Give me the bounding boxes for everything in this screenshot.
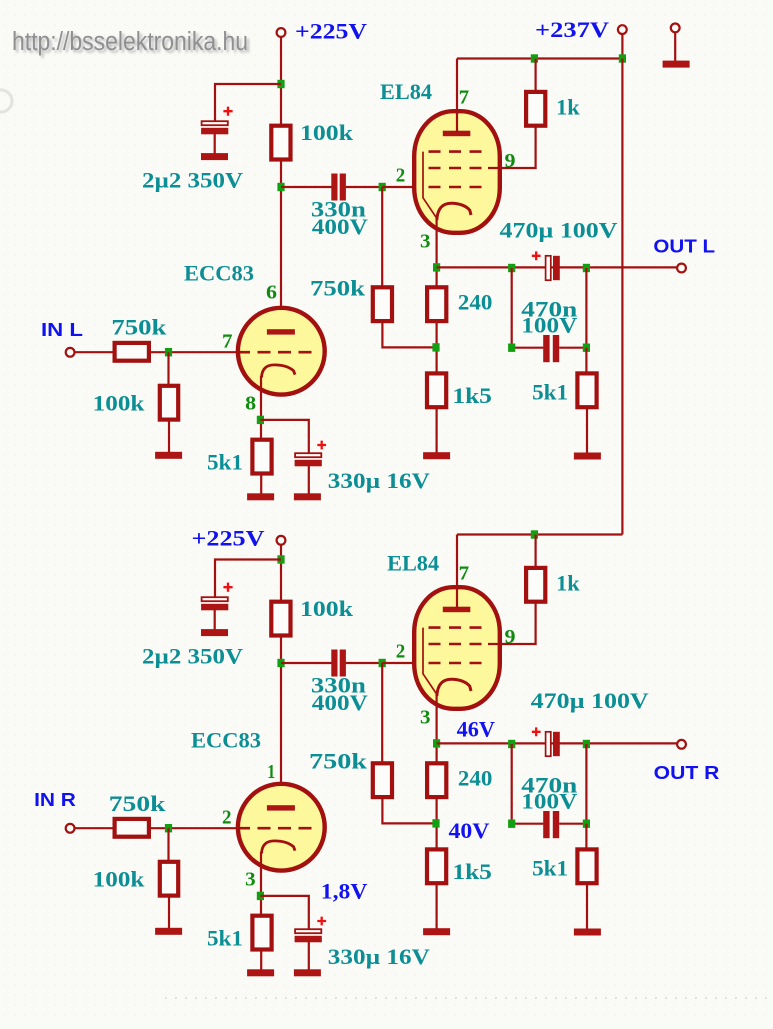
faint dotted border bottom [165,997,770,999]
svg-text:IN L: IN L [41,319,83,340]
resistor 750k input (R ch) [115,819,149,837]
wire EL84 plate lead [456,535,458,609]
EL84 grid g2 dashed row (L ch) [429,167,491,170]
junction 470µ right [583,264,590,272]
EL84 grid g1 dashed row (L ch) [429,186,491,189]
wire input terminal to 750k [75,827,113,829]
resistor 100k grid leak (R ch) [160,862,178,896]
wire 750k bottom to cathode-divider node [382,321,436,348]
terminal IN R [66,824,75,833]
svg-text:2: 2 [396,165,406,187]
terminal +225V (right ch) [277,536,286,545]
wire grid node to 750k [381,187,383,287]
polarity + of 330µ (R ch) [317,917,326,926]
svg-text:EL84: EL84 [380,79,432,104]
svg-text:240: 240 [458,765,493,790]
junction EL84 cathode node [433,739,440,747]
junction 470µ left [508,264,515,272]
capacitor 330µ 16V cathode bypass (L ch) [295,453,322,466]
capacitor 470n 100V (L ch) [543,335,559,362]
svg-text:100V: 100V [521,789,577,814]
svg-text:2µ2 350V: 2µ2 350V [142,167,243,192]
polarity + of 470µ (L ch) [532,251,541,260]
tube EL84 envelope (R ch) [414,587,500,709]
wire 100k bottom to ECC83 plate [280,160,282,330]
wire 1k bottom to EL84 pin 9 [488,602,536,645]
svg-text:ECC83: ECC83 [191,727,261,752]
svg-text:7: 7 [459,562,470,584]
wire 1k bottom to EL84 pin 9 [488,126,536,169]
ground below output 5k1 (R ch) [574,929,601,936]
capacitor 330n 400V coupling (L ch) [331,174,346,201]
svg-text:ECC83: ECC83 [184,260,254,285]
svg-text:1k: 1k [556,571,580,596]
wire 470n right drop [585,268,587,348]
junction ECC83 cathode node [257,416,264,424]
junction anode node [277,659,284,667]
wire 5k1 cathode to ground [260,473,262,495]
capacitor 330µ 16V cathode bypass (R ch) [295,929,322,942]
wire 1k top lead [534,535,536,568]
svg-text:OUT R: OUT R [654,762,720,783]
ground below grid leak (R ch) [155,928,182,935]
junction +225V node [277,555,284,563]
terminal chassis ground [671,24,680,33]
wire +225V terminal to 100k RR1 top [280,545,282,602]
svg-text:5k1: 5k1 [207,925,243,950]
EL84 g3-to-cathode internal link (R ch) [423,628,437,694]
svg-text:3: 3 [420,706,431,728]
ground below grid leak (L ch) [155,452,182,459]
resistor 750k input (L ch) [115,343,149,361]
wire ECC83 cathode lead [260,376,262,440]
resistor 5k1 cathode (L ch) [252,440,271,474]
ground below 330µ (L ch) [294,493,321,500]
junction input grid node [165,824,172,832]
ground below 330µ (R ch) [294,969,321,976]
svg-text:100k: 100k [300,120,354,145]
wire 470n left link [512,347,544,349]
resistor 5k1 output (R ch) [577,849,596,883]
wire 330µ to ground [308,466,310,494]
resistor 1k screen EL84 (L ch) [526,92,545,126]
wire 470n left link [512,823,544,825]
junction +237V node [619,54,626,62]
svg-text:2: 2 [222,806,232,828]
capacitor 330n 400V coupling (R ch) [331,650,346,677]
wire 750k to ECC83 grid [151,351,238,353]
junction 470µ left [508,740,515,748]
EL84 g3-to-cathode internal link (L ch) [423,152,437,218]
capacitor 2µ2 350V filter (R ch) [201,597,228,610]
junction 470µ right [583,740,590,748]
ground below 2µ2 cap (R ch) [201,629,228,636]
wire grid node to 100k [167,352,169,385]
ground below 2µ2 cap (L ch) [201,153,228,160]
wire 330n to EL84 grid node [346,662,383,664]
ECC83 plate bar (L ch) [267,329,295,334]
tube ECC83 envelope (R ch) [238,784,325,871]
terminal IN L [66,348,75,357]
svg-text:470µ 100V: 470µ 100V [531,688,649,713]
wire 330n to EL84 grid node [346,186,383,188]
junction divider node [432,343,439,351]
wire anode node to 330n [281,662,332,664]
wire 1k5 to ground [436,884,438,929]
polarity + of 2µ2 cap (L ch) [223,107,232,116]
svg-text:3: 3 [420,230,431,252]
resistor 1k5 (R ch) [427,849,446,883]
capacitor 470µ 100V output (R ch) [546,732,560,756]
svg-text:330µ 16V: 330µ 16V [328,468,430,493]
svg-text:2µ2 350V: 2µ2 350V [142,643,243,668]
wire 1k top lead [534,59,536,92]
svg-text:750k: 750k [109,791,167,816]
svg-text:+225V: +225V [192,526,265,551]
terminal +237V [618,25,627,34]
ECC83 grid dashed row (L ch) [237,351,317,354]
svg-text:EL84: EL84 [387,551,439,576]
svg-text:+237V: +237V [535,17,609,42]
svg-text:1k5: 1k5 [452,383,492,408]
resistor 240 cathode EL84 (L ch) [427,287,446,321]
junction input grid node [165,348,172,356]
wire EL84 cathode lead [436,694,438,763]
capacitor 470µ 100V output (L ch) [546,256,560,280]
wire 100k grid leak to ground [168,897,170,929]
junction +225V node [277,80,284,88]
ground below 1k5 (L ch) [423,452,450,459]
svg-text:100k: 100k [93,867,146,892]
svg-text:1,8V: 1,8V [321,878,368,903]
wire +225V node to filter cap [215,84,281,121]
resistor 5k1 output (L ch) [577,373,596,407]
resistor 240 cathode EL84 (R ch) [427,763,446,797]
wire cathode node to 330µ [260,420,308,454]
wire 5k1 top lead [585,348,587,373]
svg-text:5k1: 5k1 [207,449,243,474]
ECC83 plate bar (R ch) [267,805,295,810]
svg-text:6: 6 [266,281,277,303]
svg-text:5k1: 5k1 [532,380,568,405]
ground chassis [663,61,690,68]
EL84 cathode arc (R ch) [437,679,471,696]
tube EL84 envelope (L ch) [414,111,500,233]
wire 1k5 to ground [436,408,438,453]
wire 5k1 to ground [586,884,588,930]
svg-text:330µ 16V: 330µ 16V [328,944,430,969]
wire plate top bus [457,533,622,535]
wire grid node to 100k [167,828,169,861]
wire 750k bottom to cathode-divider node [382,797,436,824]
wire 5k1 cathode to ground [260,949,262,971]
svg-text:750k: 750k [310,275,366,300]
ECC83 cathode arc (L ch) [262,365,296,378]
svg-text:5k1: 5k1 [532,856,568,881]
svg-text:7: 7 [459,86,470,108]
EL84 grid g3 dashed row (R ch) [429,626,491,629]
wire 470n left drop [511,744,513,824]
svg-text:100V: 100V [521,313,577,338]
resistor 1k5 (L ch) [427,373,446,407]
junction ECC83 cathode node [257,892,264,900]
svg-text:470µ 100V: 470µ 100V [500,217,618,242]
svg-text:40V: 40V [449,818,490,843]
resistor 1k screen EL84 (R ch) [526,568,545,602]
watermark arc artifact [0,90,12,112]
polarity + of 470µ (R ch) [532,727,541,736]
wire anode node to 330n [281,186,332,188]
svg-text:http://bsselektronika.hu: http://bsselektronika.hu [12,28,248,56]
wire grid node into EL84 pin 2 [382,662,432,664]
junction EL84 grid node [379,183,386,191]
polarity + of 2µ2 cap (R ch) [223,583,232,592]
wire +225V terminal to 100k RL1 top [280,37,282,126]
wire EL84 plate lead [456,59,458,133]
svg-text:750k: 750k [111,315,167,340]
tube ECC83 envelope (L ch) [238,308,325,395]
svg-text:750k: 750k [309,749,368,774]
wire 330µ to ground [308,942,310,970]
EL84 cathode arc (L ch) [437,203,471,220]
wire 2µ2 cap to ground [214,134,216,155]
wire 100k grid leak to ground [168,421,170,453]
wire EL84 cathode lead [436,218,438,287]
resistor 100k anode ECC83 (L ch) [271,126,290,160]
junction 1k top [531,54,538,62]
EL84 grid g3 dashed row (L ch) [429,150,491,153]
wire 470n right drop [585,744,587,824]
wire 240 bottom to divider node [436,797,438,850]
svg-text:2: 2 [396,641,406,663]
resistor 5k1 cathode (R ch) [252,916,271,950]
terminal OUT L [677,264,686,273]
junction 470n left [508,344,515,352]
svg-text:OUT L: OUT L [653,235,715,256]
junction divider node [432,819,439,827]
resistor 750k grid EL84 (L ch) [373,287,392,321]
terminal OUT R [677,740,686,749]
junction EL84 cathode node [433,263,440,271]
EL84 grid g2 dashed row (R ch) [429,643,491,646]
wire 2µ2 cap to ground [214,610,216,631]
EL84 plate bar (R ch) [443,607,471,613]
wire +225V node to filter cap [215,560,281,598]
ground below cathode 5k1 (L ch) [247,493,274,500]
svg-text:46V: 46V [457,716,495,741]
wire 750k to ECC83 grid [151,827,238,829]
wire +237V rail down to right channel [621,59,623,535]
wire 240 bottom to divider node [436,321,438,374]
wire chassis terminal to ground [674,32,676,61]
svg-text:1k: 1k [556,95,580,120]
junction 470n right [583,344,590,352]
ground below 1k5 (R ch) [423,928,450,935]
ECC83 grid dashed row (R ch) [237,827,317,830]
ground below output 5k1 (L ch) [574,453,601,460]
resistor 100k anode ECC83 (R ch) [271,602,290,636]
wire 470n left drop [511,268,513,348]
svg-text:400V: 400V [312,690,368,715]
svg-text:100k: 100k [93,391,146,416]
wire 470n right link [559,823,586,825]
junction anode node [277,183,284,191]
svg-text:1: 1 [267,761,275,783]
wire grid node to 750k [381,663,383,763]
wire input terminal to 750k [75,351,113,353]
wire cathode node to 330µ [260,896,308,930]
junction 470n right [583,820,590,828]
capacitor 2µ2 350V filter (L ch) [201,121,228,134]
wire plate top bus [457,57,622,59]
junction 1k top [531,530,538,538]
ground below cathode 5k1 (R ch) [247,969,274,976]
svg-text:IN R: IN R [34,789,76,810]
svg-text:7: 7 [222,330,233,352]
capacitor 470n 100V (R ch) [543,811,559,838]
svg-text:400V: 400V [312,214,368,239]
resistor 100k grid leak (L ch) [160,386,178,420]
svg-text:1k5: 1k5 [452,859,492,884]
wire +237V terminal lead [621,34,623,59]
wire grid node into EL84 pin 2 [382,186,432,188]
wire 5k1 to ground [586,408,588,454]
wire ECC83 cathode lead [260,852,262,916]
terminal +225V (left ch) [277,28,286,37]
svg-text:8: 8 [245,392,256,414]
polarity + of 330µ (L ch) [317,441,326,450]
svg-text:240: 240 [458,289,493,314]
wire 100k bottom to ECC83 plate [280,636,282,806]
EL84 plate bar (L ch) [443,131,471,137]
resistor 750k grid EL84 (R ch) [373,763,392,797]
wire output node OUT L [437,266,678,268]
junction 470n left [508,820,515,828]
wire 5k1 top lead [585,824,587,849]
junction EL84 grid node [379,659,386,667]
ECC83 cathode arc (R ch) [262,841,296,854]
svg-text:3: 3 [245,868,256,890]
wire output node OUT R [437,742,678,744]
svg-text:100k: 100k [300,596,354,621]
EL84 grid g1 dashed row (R ch) [429,662,491,665]
wire 470n right link [559,347,586,349]
svg-text:+225V: +225V [295,18,367,43]
